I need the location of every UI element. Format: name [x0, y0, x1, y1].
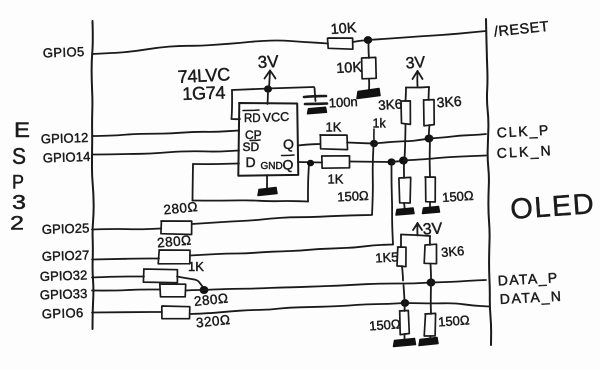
svg-text:GPIO25: GPIO25: [42, 220, 90, 237]
svg-text:Q: Q: [283, 136, 294, 152]
svg-text:10K: 10K: [330, 20, 357, 38]
svg-text:280Ω: 280Ω: [156, 233, 192, 251]
svg-text:3V: 3V: [405, 54, 426, 72]
svg-text:S: S: [12, 143, 26, 169]
svg-text:150Ω: 150Ω: [442, 188, 475, 205]
svg-text:150Ω: 150Ω: [337, 188, 369, 205]
svg-text:150Ω: 150Ω: [369, 316, 402, 333]
svg-text:OLED: OLED: [509, 188, 596, 226]
svg-text:100n: 100n: [328, 94, 358, 110]
svg-text:3V: 3V: [257, 52, 279, 72]
svg-text:1K: 1K: [188, 259, 204, 274]
svg-text:GPIO6: GPIO6: [42, 305, 84, 321]
svg-text:1G74: 1G74: [182, 83, 226, 104]
svg-text:1k: 1k: [373, 117, 387, 131]
svg-text:VCC: VCC: [262, 110, 289, 125]
svg-text:GPIO27: GPIO27: [42, 247, 90, 264]
svg-text:GPIO14: GPIO14: [43, 149, 91, 166]
svg-text:GPIO5: GPIO5: [43, 44, 85, 60]
svg-text:GPIO12: GPIO12: [41, 130, 89, 147]
svg-text:10K: 10K: [336, 60, 363, 77]
svg-text:3: 3: [12, 192, 26, 214]
svg-text:SD: SD: [243, 140, 260, 154]
svg-text:1K: 1K: [326, 120, 342, 135]
svg-text:3K6: 3K6: [440, 243, 464, 260]
svg-text:1K5: 1K5: [375, 249, 399, 265]
svg-text:DATA_N: DATA_N: [499, 288, 563, 307]
svg-text:GPIO32: GPIO32: [40, 267, 88, 284]
svg-text:CLK_P: CLK_P: [496, 122, 550, 141]
svg-text:3K6: 3K6: [436, 93, 462, 111]
svg-text:Q: Q: [283, 157, 294, 173]
svg-text:GND: GND: [261, 161, 283, 172]
svg-text:P: P: [12, 173, 24, 194]
svg-text:3K6: 3K6: [378, 96, 403, 113]
svg-text:D: D: [246, 154, 256, 170]
svg-text:DATA_P: DATA_P: [497, 269, 559, 288]
svg-text:150Ω: 150Ω: [438, 312, 471, 329]
svg-text:E: E: [14, 119, 30, 142]
svg-text:1K: 1K: [328, 172, 344, 187]
svg-text:RD: RD: [244, 113, 261, 125]
svg-text:GPIO33: GPIO33: [40, 286, 88, 303]
svg-text:CLK_N: CLK_N: [496, 142, 553, 161]
svg-text:2: 2: [10, 214, 24, 235]
